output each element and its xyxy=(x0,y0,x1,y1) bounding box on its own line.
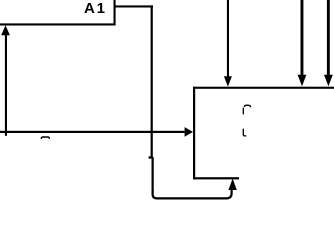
top arrow 3 into right block xyxy=(324,0,333,86)
glyph fragment upper (hooked stroke) inside right block xyxy=(243,105,250,114)
wire bottom U-run with rounded corners xyxy=(153,188,232,199)
svg-text:A1: A1 xyxy=(84,0,105,17)
wire kink nub xyxy=(149,156,152,158)
glyph fragment below mid wire xyxy=(41,137,49,139)
wire vertical long run at x~151 xyxy=(151,5,153,157)
top arrow 1 into right block xyxy=(224,0,232,87)
glyph fragment lower (dash with foot) inside right block xyxy=(243,129,246,136)
arrowhead right into left edge of right block xyxy=(185,127,193,137)
wire from A1 right edge going right xyxy=(115,5,153,7)
wire horizontal mid run xyxy=(0,131,185,133)
right block (partially visible) xyxy=(193,87,334,180)
arrowhead up into bottom of right block xyxy=(228,179,236,191)
block A1 (partially visible top-left box) xyxy=(0,0,116,26)
wire left vertical with up arrow xyxy=(1,25,10,136)
top arrow 2 into right block xyxy=(298,0,307,86)
wire lower vertical segment xyxy=(152,157,154,192)
